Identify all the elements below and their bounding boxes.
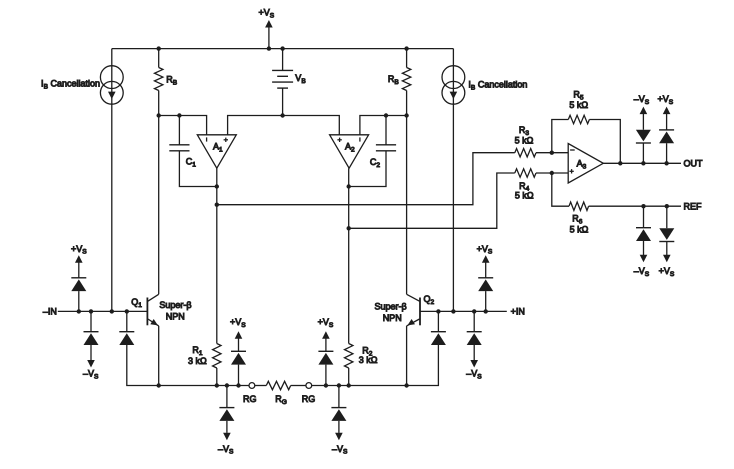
svg-text:5 kΩ: 5 kΩ <box>515 191 534 201</box>
svg-text:+IN: +IN <box>511 307 525 317</box>
svg-text:Super-β: Super-β <box>374 302 406 312</box>
svg-text:RG: RG <box>302 394 316 404</box>
svg-text:Super-β: Super-β <box>159 300 191 310</box>
svg-text:–IN: –IN <box>43 306 57 316</box>
svg-text:REF: REF <box>684 201 703 211</box>
svg-text:5 kΩ: 5 kΩ <box>570 224 589 234</box>
svg-text:OUT: OUT <box>684 158 704 168</box>
svg-text:3 kΩ: 3 kΩ <box>188 356 207 366</box>
svg-text:NPN: NPN <box>383 313 402 323</box>
svg-text:NPN: NPN <box>166 311 185 321</box>
svg-text:3 kΩ: 3 kΩ <box>359 355 378 365</box>
svg-text:5 kΩ: 5 kΩ <box>515 135 534 145</box>
svg-text:RG: RG <box>243 394 257 404</box>
svg-text:5 kΩ: 5 kΩ <box>569 100 588 110</box>
